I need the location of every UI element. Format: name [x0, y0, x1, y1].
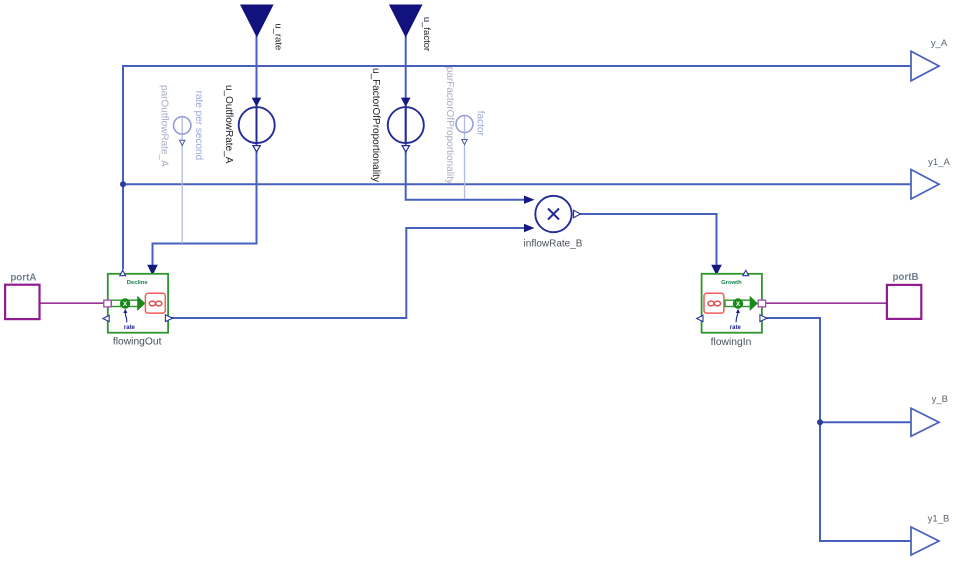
arrowhead into product top input — [524, 196, 535, 204]
block flowingIn (stock Growth) — [697, 270, 767, 348]
wire y_A bus from flowingOut state output — [123, 66, 911, 270]
svg-text:y_A: y_A — [931, 38, 948, 49]
block parFactorOfProportionality (faded parameter) — [444, 67, 486, 184]
port portA — [5, 272, 39, 319]
wire y1_A branch — [123, 183, 911, 185]
svg-text:portB: portB — [892, 272, 918, 283]
svg-text:factor: factor — [475, 111, 486, 137]
wire product output into flowingIn top — [581, 214, 717, 268]
arrowhead into flowingOut top — [147, 265, 158, 276]
output connector y1_A — [911, 157, 950, 199]
svg-text:rate: rate — [730, 325, 742, 331]
block inflowRate_B (product) — [524, 196, 583, 250]
svg-text:inflowRate_B: inflowRate_B — [524, 238, 583, 249]
svg-text:u_OutflowRate_A: u_OutflowRate_A — [223, 85, 234, 164]
svg-text:y1_A: y1_A — [928, 157, 950, 168]
node junction on left bus — [120, 181, 126, 187]
output connector y1_B — [911, 514, 949, 556]
output connector y_A — [911, 38, 948, 81]
svg-text:parFactorOfProportionality: parFactorOfProportionality — [444, 67, 455, 184]
block parOutflowRate_A (faded parameter) — [159, 85, 204, 167]
wire u_rate line into flowingOut — [153, 36, 257, 268]
svg-text:u_rate: u_rate — [272, 23, 283, 50]
arrowhead into flowingIn top — [711, 265, 722, 276]
wire faded parFactorOfProportionality parameter line — [464, 116, 466, 199]
svg-text:parOutflowRate_A: parOutflowRate_A — [159, 85, 170, 167]
svg-text:X: X — [123, 301, 128, 308]
svg-text:Growth: Growth — [721, 280, 742, 286]
svg-text:y_B: y_B — [932, 394, 948, 405]
svg-text:X: X — [736, 301, 741, 308]
block u_OutflowRate_A (circle converter) — [223, 85, 275, 164]
port portB — [887, 272, 921, 319]
arrowhead into product bottom input — [524, 224, 535, 232]
wire u_factor line into product top input — [406, 36, 526, 200]
svg-text:portA: portA — [10, 272, 36, 283]
block u_FactorOfProportionality (circle converter) — [370, 68, 424, 182]
wire flowingIn to portB (purple) — [766, 302, 887, 304]
wire flowingIn output to y_B and y1_B — [767, 318, 912, 541]
svg-text:u_FactorOfProportionality: u_FactorOfProportionality — [370, 68, 381, 182]
svg-text:u_factor: u_factor — [421, 17, 432, 51]
input connector u_factor (filled triangle) — [390, 5, 433, 51]
node junction on B bus — [817, 419, 823, 425]
svg-text:Decline: Decline — [127, 280, 149, 286]
output connector y_B — [911, 394, 948, 436]
svg-text:y1_B: y1_B — [928, 514, 950, 525]
wire portA to flowingOut (purple) — [40, 302, 104, 304]
wire faded parOutflowRate_A parameter line — [181, 116, 183, 244]
wire flowingOut outflow output to product bottom input — [168, 228, 526, 318]
svg-text:flowingOut: flowingOut — [113, 336, 162, 347]
svg-text:flowingIn: flowingIn — [711, 337, 752, 348]
block flowingOut (stock Decline) — [103, 270, 172, 347]
input connector u_rate (filled triangle) — [241, 5, 283, 50]
svg-text:rate: rate — [124, 325, 136, 331]
svg-text:rate per second: rate per second — [193, 91, 204, 161]
